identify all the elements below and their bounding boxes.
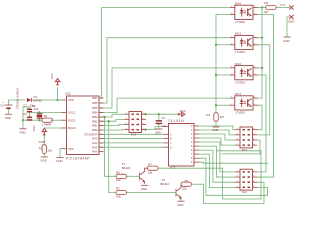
wire RA1 to IC2 D xyxy=(99,146,164,148)
wire IC2 out7 to SV2 xyxy=(199,150,236,182)
wire OSC2 net right xyxy=(51,119,62,121)
svg-text:ICSP: ICSP xyxy=(39,140,46,144)
svg-text:Q1: Q1 xyxy=(44,114,48,118)
svg-text:GND: GND xyxy=(41,159,47,163)
ground symbol C3 xyxy=(155,128,162,130)
svg-text:VSS: VSS xyxy=(68,147,74,151)
opto-coupler OK1 xyxy=(230,96,258,110)
wire IC2 out3 to SV1 xyxy=(199,134,236,140)
IC1 left pins xyxy=(62,100,67,149)
battery G1 xyxy=(5,104,13,106)
wire VCC to OK1 pin2 xyxy=(216,104,230,106)
svg-text:R3: R3 xyxy=(116,187,120,191)
svg-text:BF422: BF422 xyxy=(161,182,170,186)
svg-text:10k: 10k xyxy=(116,194,121,198)
wire C2 leads xyxy=(29,113,31,116)
wire SV1 pin to under run xyxy=(222,140,260,154)
transistor T2 xyxy=(139,173,141,181)
svg-text:OK3: OK3 xyxy=(235,32,241,36)
svg-text:GND: GND xyxy=(141,187,147,191)
junction base T1 xyxy=(108,120,110,122)
svg-text:RA1: RA1 xyxy=(92,145,98,149)
resistor R3 base T1 xyxy=(116,190,127,194)
svg-text:74141N: 74141N xyxy=(168,119,185,123)
svg-text:1u0: 1u0 xyxy=(161,124,166,128)
svg-text:GND: GND xyxy=(19,131,25,135)
VCC arrow top xyxy=(55,79,59,86)
svg-text:RA0: RA0 xyxy=(92,150,98,154)
connector SV2 xyxy=(236,169,258,190)
wire IC2 out2 to SV1 xyxy=(199,130,236,135)
wire diode to VDD xyxy=(33,99,62,101)
wire IC2 out1 to SV1 xyxy=(199,126,236,130)
wire crystal bottom stub xyxy=(39,118,41,120)
resistor R5 xyxy=(266,5,277,9)
svg-text:4k7: 4k7 xyxy=(220,115,225,119)
junction OK3 pin2 xyxy=(215,44,217,46)
resistor R7 xyxy=(148,166,159,170)
ground symbol T1 xyxy=(177,200,184,202)
wire OK4 pin4 to R5 xyxy=(258,7,266,9)
junction crystal top xyxy=(38,111,40,113)
svg-text:LTV816: LTV816 xyxy=(235,80,245,84)
svg-text:VDD: VDD xyxy=(68,98,74,102)
wire OK4 pin3 down right xyxy=(257,15,274,177)
svg-text:OK1: OK1 xyxy=(235,92,241,96)
svg-text:IC1: IC1 xyxy=(66,92,71,96)
svg-text:C3: C3 xyxy=(161,116,165,120)
resistor R6 xyxy=(181,182,192,186)
svg-text:GND: GND xyxy=(212,128,218,132)
svg-text:RB2: RB2 xyxy=(92,119,98,123)
IC2 right pins xyxy=(194,126,199,162)
off-page connector X 1.7V xyxy=(289,5,293,9)
wire SV3 pin6 to IC2 xyxy=(146,127,164,130)
svg-text:1.048M: 1.048M xyxy=(42,123,52,127)
wire IC2 out9 bottom run xyxy=(199,158,268,195)
svg-text:SV1: SV1 xyxy=(242,148,248,152)
ground symbol VSS xyxy=(56,156,63,158)
wire IC2 out8 to SV2 xyxy=(199,154,236,187)
svg-text:GND: GND xyxy=(288,19,294,23)
wire RA3 to IC2 B xyxy=(99,138,164,140)
wire IC2 out6 to SV2 xyxy=(199,146,236,177)
junction gnd rail C2 xyxy=(22,119,24,121)
connector SV3 xyxy=(125,112,147,133)
svg-text:GND: GND xyxy=(283,39,289,43)
wire MCLR net xyxy=(44,127,61,129)
svg-text:VCC: VCC xyxy=(50,72,54,79)
svg-text:CR2032-1220LF: CR2032-1220LF xyxy=(15,87,19,109)
IC1 pin name texts xyxy=(68,96,98,154)
svg-text:RB1: RB1 xyxy=(92,124,98,128)
wire OK1 pin3 to SV1 xyxy=(257,105,262,130)
ground symbol battery xyxy=(5,113,12,115)
svg-text:RB5: RB5 xyxy=(92,106,98,110)
connector SV1 xyxy=(236,127,258,148)
diode D1 xyxy=(27,98,32,102)
wire OK3 pin4 stub xyxy=(258,37,262,39)
svg-text:D: D xyxy=(170,146,172,149)
svg-text:RB6: RB6 xyxy=(92,101,98,105)
supply symbol VCC at MCLR xyxy=(42,128,46,135)
ground symbol R4 xyxy=(212,126,219,128)
svg-text:10k: 10k xyxy=(47,149,52,153)
svg-text:OSC1: OSC1 xyxy=(68,111,76,115)
wire RB6 to OK3 pin1 xyxy=(99,38,230,103)
svg-text:SV3: SV3 xyxy=(131,132,137,136)
wire crystal top stub xyxy=(39,112,41,113)
resistor R1 crystal xyxy=(42,118,53,122)
junction base T2 xyxy=(104,116,106,118)
wire OK3 pin3 down right xyxy=(257,45,270,135)
svg-text:OK4: OK4 xyxy=(235,1,241,5)
svg-text:R7: R7 xyxy=(148,162,152,166)
svg-text:GND: GND xyxy=(177,203,183,207)
ground symbol crystal xyxy=(19,128,26,130)
opto-coupler OK3 xyxy=(230,35,258,49)
svg-text:PIC16F84AP: PIC16F84AP xyxy=(66,157,90,161)
opto-coupler OK2 xyxy=(230,66,258,80)
ground symbol top right xyxy=(283,36,290,38)
svg-text:RA2: RA2 xyxy=(92,141,98,145)
wire RA2 to IC2 C xyxy=(99,142,164,144)
svg-text:BF422: BF422 xyxy=(122,166,131,170)
IC2 left pins xyxy=(164,127,169,148)
IC1 PIC16F84 box xyxy=(67,96,100,155)
capacitor C1 xyxy=(27,109,32,111)
junction OK3 pin4 xyxy=(261,37,263,39)
wire R5 to X1 xyxy=(276,7,290,9)
ground symbol ICSP xyxy=(41,156,48,158)
svg-text:10k: 10k xyxy=(182,187,187,191)
svg-text:R5: R5 xyxy=(265,1,269,5)
svg-text:RA3: RA3 xyxy=(92,137,98,141)
opto-coupler OK4 xyxy=(230,5,258,19)
wire ICSP chain xyxy=(43,135,45,145)
wire RB0 to SV3 pin7 xyxy=(99,129,125,131)
wire crystal gnd rail xyxy=(22,107,24,128)
wire RB3 to SV3 pin1 xyxy=(99,114,125,117)
svg-text:G1: G1 xyxy=(0,104,4,108)
svg-text:MCLR: MCLR xyxy=(68,126,76,130)
svg-text:VCC: VCC xyxy=(32,125,36,131)
wire base drive T1 xyxy=(109,121,116,192)
wire IC2 out4 to SV1 xyxy=(199,138,236,145)
capacitor C3 xyxy=(156,120,162,122)
svg-text:SV2: SV2 xyxy=(242,190,248,194)
svg-text:1.7V: 1.7V xyxy=(280,3,286,7)
wire battery to diode xyxy=(9,100,25,105)
junction VCC tap xyxy=(57,99,59,101)
wire RB4 to OK1 pin1 xyxy=(99,98,230,112)
wire IC2 out10 bottom run xyxy=(199,162,268,163)
wire VSS to GND xyxy=(60,149,62,157)
svg-text:10k: 10k xyxy=(148,171,153,175)
junction collector bus top xyxy=(261,6,263,8)
wire VCC arrow down xyxy=(57,88,59,101)
wire RA4 to IC2 A xyxy=(99,133,164,135)
svg-text:R1: R1 xyxy=(39,147,43,151)
wire OK2 pin3 down right xyxy=(257,75,266,172)
wire OK3 pin2 stub xyxy=(216,44,230,46)
wire battery minus to GND xyxy=(8,109,10,114)
svg-text:R4: R4 xyxy=(207,113,211,117)
svg-text:GND: GND xyxy=(5,116,11,120)
transistor T1 xyxy=(175,189,177,197)
crystal Q1 xyxy=(37,112,43,114)
wire C1 top stub xyxy=(23,107,30,109)
wire T1 collector to SV2 wrap xyxy=(192,183,204,185)
wire OK2 pin2 stub xyxy=(216,74,230,76)
svg-text:LTV816: LTV816 xyxy=(235,20,245,24)
svg-text:R2: R2 xyxy=(116,170,120,174)
wire RB5 to OK2 pin1 xyxy=(99,68,230,108)
svg-text:RB3: RB3 xyxy=(92,115,98,119)
wire opto cathode bus xyxy=(216,15,230,113)
VCC arrow SV3 xyxy=(178,112,185,116)
svg-text:VCC: VCC xyxy=(180,109,186,113)
wire base drive T2 xyxy=(105,117,116,176)
svg-text:T0CKI/RA4: T0CKI/RA4 xyxy=(84,132,98,136)
svg-text:LTV816: LTV816 xyxy=(235,111,245,115)
capacitor C2 xyxy=(27,117,32,119)
wire OSC2 net left xyxy=(23,119,42,121)
wire R4 to GND xyxy=(215,121,217,126)
wire OSC1 net xyxy=(30,111,62,113)
junction SV3 pin2 xyxy=(144,113,146,115)
svg-text:RB7: RB7 xyxy=(92,96,98,100)
svg-text:220: 220 xyxy=(34,107,39,111)
svg-text:4k7: 4k7 xyxy=(264,10,269,14)
resistor R2 base T2 xyxy=(116,174,127,178)
svg-text:C1: C1 xyxy=(23,104,27,108)
svg-text:OK2: OK2 xyxy=(235,62,241,66)
IC2 74141 box xyxy=(169,124,195,167)
wire C3 leads xyxy=(158,114,160,120)
wire OK2 pin4 stub xyxy=(258,67,262,69)
svg-text:OSC2: OSC2 xyxy=(68,118,76,122)
junction OK2 pin4 xyxy=(261,67,263,69)
svg-text:C2: C2 xyxy=(23,112,27,116)
IC2 pin texts xyxy=(170,125,193,164)
svg-text:C: C xyxy=(170,142,172,145)
junction OK2 pin2 xyxy=(215,74,217,76)
junction C3 top xyxy=(158,113,160,115)
wire SV3 pin2 to VCC xyxy=(146,113,183,115)
wire opto collector bus xyxy=(258,8,262,99)
junction SV3 pin6 xyxy=(144,129,146,131)
IC1 right pins xyxy=(99,98,104,152)
wire RB1 to SV3 pin5 xyxy=(99,125,125,126)
svg-text:R6: R6 xyxy=(185,179,189,183)
svg-text:10k: 10k xyxy=(116,178,121,182)
wire X2 to GND symbol xyxy=(287,17,290,37)
resistor R1 xyxy=(42,145,46,154)
resistor R4 xyxy=(214,113,218,122)
wire T2 collector to SV1 wrap xyxy=(158,151,261,199)
svg-text:LTV816: LTV816 xyxy=(235,50,245,54)
svg-text:RB4: RB4 xyxy=(92,111,98,115)
ground symbol T2 xyxy=(141,184,148,186)
svg-text:GND: GND xyxy=(155,131,161,135)
wire IC2 out5 to SV2 xyxy=(199,142,236,172)
wire RB7 to OK4 pin1 xyxy=(99,8,230,99)
wire RB2 to SV3 pin3 xyxy=(99,119,125,121)
junction crystal bottom xyxy=(38,119,40,121)
svg-text:IC2: IC2 xyxy=(171,166,176,170)
off-page connector X GND xyxy=(289,15,293,19)
svg-text:GND: GND xyxy=(56,159,62,163)
svg-text:RB0: RB0 xyxy=(92,128,98,132)
svg-text:BAT85: BAT85 xyxy=(34,98,43,102)
